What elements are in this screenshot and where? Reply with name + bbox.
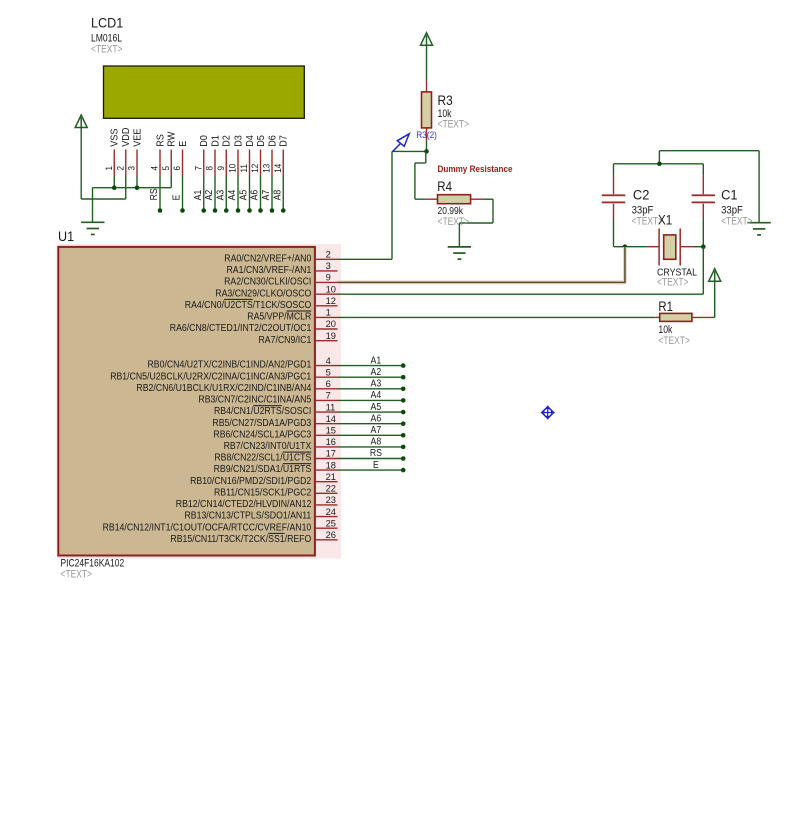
svg-text:RS: RS bbox=[370, 448, 382, 459]
svg-text:7: 7 bbox=[326, 391, 331, 401]
svg-text:18: 18 bbox=[326, 460, 336, 470]
svg-text:RA0/CN2/VREF+/AN0: RA0/CN2/VREF+/AN0 bbox=[224, 253, 311, 264]
svg-text:A1: A1 bbox=[193, 189, 204, 200]
svg-text:A5: A5 bbox=[371, 402, 382, 413]
svg-text:RB3/CN7/C2INC/C1INA/AN5: RB3/CN7/C2INC/C1INA/AN5 bbox=[198, 395, 311, 406]
svg-text:17: 17 bbox=[326, 449, 336, 459]
svg-text:A7: A7 bbox=[371, 425, 382, 436]
svg-text:1: 1 bbox=[326, 308, 331, 318]
svg-text:A7: A7 bbox=[261, 189, 272, 200]
svg-text:R3: R3 bbox=[438, 93, 453, 108]
svg-text:9: 9 bbox=[326, 273, 331, 283]
svg-text:RB9/CN21/SDA1/U1RTS: RB9/CN21/SDA1/U1RTS bbox=[214, 464, 312, 475]
svg-text:8: 8 bbox=[205, 166, 215, 171]
svg-text:A3: A3 bbox=[371, 379, 382, 390]
svg-text:RB11/CN15/SCK1/PGC2: RB11/CN15/SCK1/PGC2 bbox=[214, 487, 312, 498]
svg-text:<TEXT>: <TEXT> bbox=[438, 119, 470, 131]
svg-text:3: 3 bbox=[326, 261, 331, 271]
svg-text:D7: D7 bbox=[278, 135, 290, 147]
svg-text:7: 7 bbox=[193, 166, 203, 171]
svg-text:RA1/CN3/VREF-/AN1: RA1/CN3/VREF-/AN1 bbox=[227, 265, 312, 276]
svg-text:RA2/CN30/CLKI/OSCI: RA2/CN30/CLKI/OSCI bbox=[224, 277, 311, 288]
svg-text:E: E bbox=[373, 460, 379, 471]
svg-text:RB15/CN11/T3CK/T2CK/SS1/REFO: RB15/CN11/T3CK/T2CK/SS1/REFO bbox=[170, 534, 311, 545]
svg-text:D1: D1 bbox=[209, 135, 221, 147]
svg-text:22: 22 bbox=[326, 484, 336, 494]
svg-text:C2: C2 bbox=[633, 187, 650, 202]
svg-text:4: 4 bbox=[150, 166, 160, 171]
svg-text:12: 12 bbox=[326, 296, 336, 306]
svg-text:21: 21 bbox=[326, 472, 336, 482]
svg-text:RB12/CN14/CTED2/HLVDIN/AN12: RB12/CN14/CTED2/HLVDIN/AN12 bbox=[176, 499, 312, 510]
svg-text:RA5/VPP/MCLR: RA5/VPP/MCLR bbox=[247, 312, 311, 323]
svg-text:A4: A4 bbox=[371, 390, 382, 401]
svg-text:2: 2 bbox=[326, 250, 331, 260]
svg-text:C1: C1 bbox=[721, 187, 738, 202]
svg-text:5: 5 bbox=[161, 166, 171, 171]
svg-text:RA3/CN29/CLKO/OSCO: RA3/CN29/CLKO/OSCO bbox=[215, 288, 311, 299]
svg-text:9: 9 bbox=[216, 166, 226, 171]
svg-text:10: 10 bbox=[326, 284, 336, 294]
svg-text:4: 4 bbox=[326, 356, 331, 366]
svg-text:A4: A4 bbox=[227, 189, 238, 200]
svg-text:<TEXT>: <TEXT> bbox=[91, 43, 123, 55]
svg-text:RB2/CN6/U1BCLK/U1RX/C2IND/C1IN: RB2/CN6/U1BCLK/U1RX/C2IND/C1INB/AN4 bbox=[136, 383, 311, 394]
svg-text:1: 1 bbox=[104, 166, 114, 171]
svg-text:U1: U1 bbox=[58, 228, 74, 244]
svg-text:A1: A1 bbox=[371, 355, 382, 366]
svg-text:11: 11 bbox=[326, 402, 336, 412]
svg-text:A8: A8 bbox=[272, 189, 283, 200]
svg-text:RA7/CN9/IC1: RA7/CN9/IC1 bbox=[259, 335, 312, 346]
svg-text:RA6/CN8/CTED1/INT2/C2OUT/OC1: RA6/CN8/CTED1/INT2/C2OUT/OC1 bbox=[170, 323, 312, 334]
svg-text:<TEXT>: <TEXT> bbox=[657, 277, 689, 289]
svg-text:RS: RS bbox=[154, 134, 166, 147]
svg-text:RB8/CN22/SCL1/U1CTS: RB8/CN22/SCL1/U1CTS bbox=[214, 453, 311, 464]
svg-text:13: 13 bbox=[262, 164, 272, 173]
svg-text:19: 19 bbox=[326, 331, 336, 341]
svg-text:11: 11 bbox=[239, 164, 249, 172]
svg-text:RB7/CN23/INT0/U1TX: RB7/CN23/INT0/U1TX bbox=[224, 441, 312, 452]
svg-text:25: 25 bbox=[326, 518, 336, 528]
svg-text:RB5/CN27/SDA1A/PGD3: RB5/CN27/SDA1A/PGD3 bbox=[212, 418, 311, 429]
svg-text:PIC24F16KA102: PIC24F16KA102 bbox=[61, 558, 125, 570]
svg-text:6: 6 bbox=[326, 379, 331, 389]
svg-text:D2: D2 bbox=[221, 135, 233, 147]
svg-text:VSS: VSS bbox=[109, 129, 121, 147]
svg-text:RB10/CN16/PMD2/SDI1/PGD2: RB10/CN16/PMD2/SDI1/PGD2 bbox=[190, 476, 312, 487]
svg-text:R4: R4 bbox=[437, 179, 452, 194]
svg-text:A6: A6 bbox=[250, 189, 261, 200]
svg-text:14: 14 bbox=[326, 414, 336, 424]
svg-text:12: 12 bbox=[250, 164, 260, 173]
svg-text:D6: D6 bbox=[266, 135, 278, 147]
svg-text:RB6/CN24/SCL1A/PGC3: RB6/CN24/SCL1A/PGC3 bbox=[213, 429, 311, 440]
svg-text:VDD: VDD bbox=[120, 127, 132, 147]
svg-text:D3: D3 bbox=[232, 135, 244, 147]
svg-text:RB0/CN4/U2TX/C2INB/C1IND/AN2/P: RB0/CN4/U2TX/C2INB/C1IND/AN2/PGD1 bbox=[148, 360, 312, 371]
svg-text:RA4/CN0/U2CTS/T1CK/SOSCO: RA4/CN0/U2CTS/T1CK/SOSCO bbox=[185, 300, 312, 311]
svg-text:RS: RS bbox=[149, 188, 160, 200]
svg-text:14: 14 bbox=[273, 164, 283, 173]
svg-text:LCD1: LCD1 bbox=[91, 14, 123, 30]
svg-text:15: 15 bbox=[326, 426, 336, 436]
svg-text:2: 2 bbox=[115, 166, 125, 171]
svg-text:VEE: VEE bbox=[131, 129, 143, 147]
svg-text:<TEXT>: <TEXT> bbox=[658, 335, 690, 347]
svg-text:D0: D0 bbox=[198, 135, 210, 147]
svg-text:3: 3 bbox=[127, 166, 137, 171]
svg-text:A2: A2 bbox=[204, 189, 215, 200]
svg-text:RB1/CN5/U2BCLK/U2RX/C2INA/C1IN: RB1/CN5/U2BCLK/U2RX/C2INA/C1INC/AN3/PGC1 bbox=[110, 371, 311, 382]
svg-text:A3: A3 bbox=[215, 189, 226, 200]
svg-text:R3(2): R3(2) bbox=[416, 130, 437, 140]
svg-text:E: E bbox=[172, 194, 183, 200]
svg-text:<TEXT>: <TEXT> bbox=[721, 215, 753, 227]
svg-text:20: 20 bbox=[326, 319, 336, 329]
svg-text:E: E bbox=[177, 141, 189, 147]
svg-text:X1: X1 bbox=[658, 213, 672, 228]
svg-text:Dummy Resistance: Dummy Resistance bbox=[438, 164, 513, 175]
svg-text:D5: D5 bbox=[255, 135, 267, 147]
svg-text:5: 5 bbox=[326, 367, 331, 377]
svg-text:<TEXT>: <TEXT> bbox=[438, 216, 470, 228]
svg-text:23: 23 bbox=[326, 495, 336, 505]
svg-text:RB14/CN12/INT1/C1OUT/OCFA/RTCC: RB14/CN12/INT1/C1OUT/OCFA/RTCC/CVREF/AN1… bbox=[103, 522, 312, 533]
svg-text:6: 6 bbox=[172, 166, 182, 171]
svg-text:<TEXT>: <TEXT> bbox=[61, 569, 93, 581]
svg-text:A2: A2 bbox=[371, 367, 382, 378]
svg-text:26: 26 bbox=[326, 530, 336, 540]
svg-text:A6: A6 bbox=[371, 413, 382, 424]
svg-text:A5: A5 bbox=[239, 189, 250, 200]
svg-text:A8: A8 bbox=[371, 437, 382, 448]
svg-text:RB4/CN1/U2RTS/SOSCI: RB4/CN1/U2RTS/SOSCI bbox=[214, 406, 311, 417]
svg-text:RW: RW bbox=[166, 132, 178, 147]
svg-text:R1: R1 bbox=[658, 299, 673, 314]
svg-text:10: 10 bbox=[228, 164, 238, 173]
svg-text:24: 24 bbox=[326, 507, 336, 517]
svg-text:RB13/CN13/CTPLS/SDO1/AN11: RB13/CN13/CTPLS/SDO1/AN11 bbox=[184, 511, 311, 522]
svg-text:16: 16 bbox=[326, 437, 336, 447]
